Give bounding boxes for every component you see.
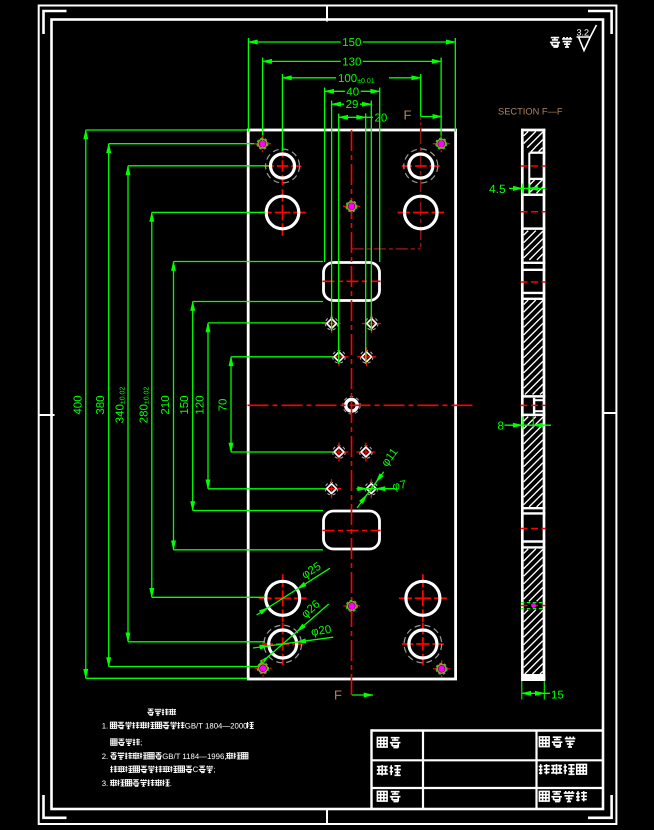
svg-text:F: F <box>404 108 412 123</box>
svg-text:130: 130 <box>342 56 361 68</box>
svg-text:150: 150 <box>179 395 191 414</box>
svg-text:GB/T 1184—1996,: GB/T 1184—1996, <box>162 752 226 761</box>
svg-text:15: 15 <box>551 689 564 701</box>
svg-text:380: 380 <box>95 395 107 414</box>
svg-text:4.5: 4.5 <box>489 182 506 196</box>
svg-text:3.: 3. <box>102 779 109 788</box>
svg-text:400: 400 <box>72 395 84 414</box>
svg-text:3.2: 3.2 <box>577 27 590 37</box>
svg-text:210: 210 <box>160 395 172 414</box>
svg-text:F: F <box>334 688 342 703</box>
svg-text:40: 40 <box>346 86 359 98</box>
svg-text:;: ; <box>140 738 142 747</box>
svg-text:70: 70 <box>218 399 230 412</box>
svg-text:120: 120 <box>195 395 207 414</box>
svg-text:2.: 2. <box>102 752 109 761</box>
svg-text:8: 8 <box>498 421 504 433</box>
svg-text:;: ; <box>213 765 215 774</box>
svg-text:SECTION F—F: SECTION F—F <box>498 106 563 116</box>
svg-text:150: 150 <box>342 37 361 49</box>
svg-text:29: 29 <box>346 99 359 111</box>
svg-text:C: C <box>193 765 199 774</box>
svg-text:φ7: φ7 <box>392 479 408 493</box>
svg-text:.: . <box>170 779 172 788</box>
svg-text:20: 20 <box>375 112 388 124</box>
svg-text:1.: 1. <box>102 721 109 730</box>
svg-text:GB/T 1804—2000: GB/T 1804—2000 <box>185 721 248 730</box>
